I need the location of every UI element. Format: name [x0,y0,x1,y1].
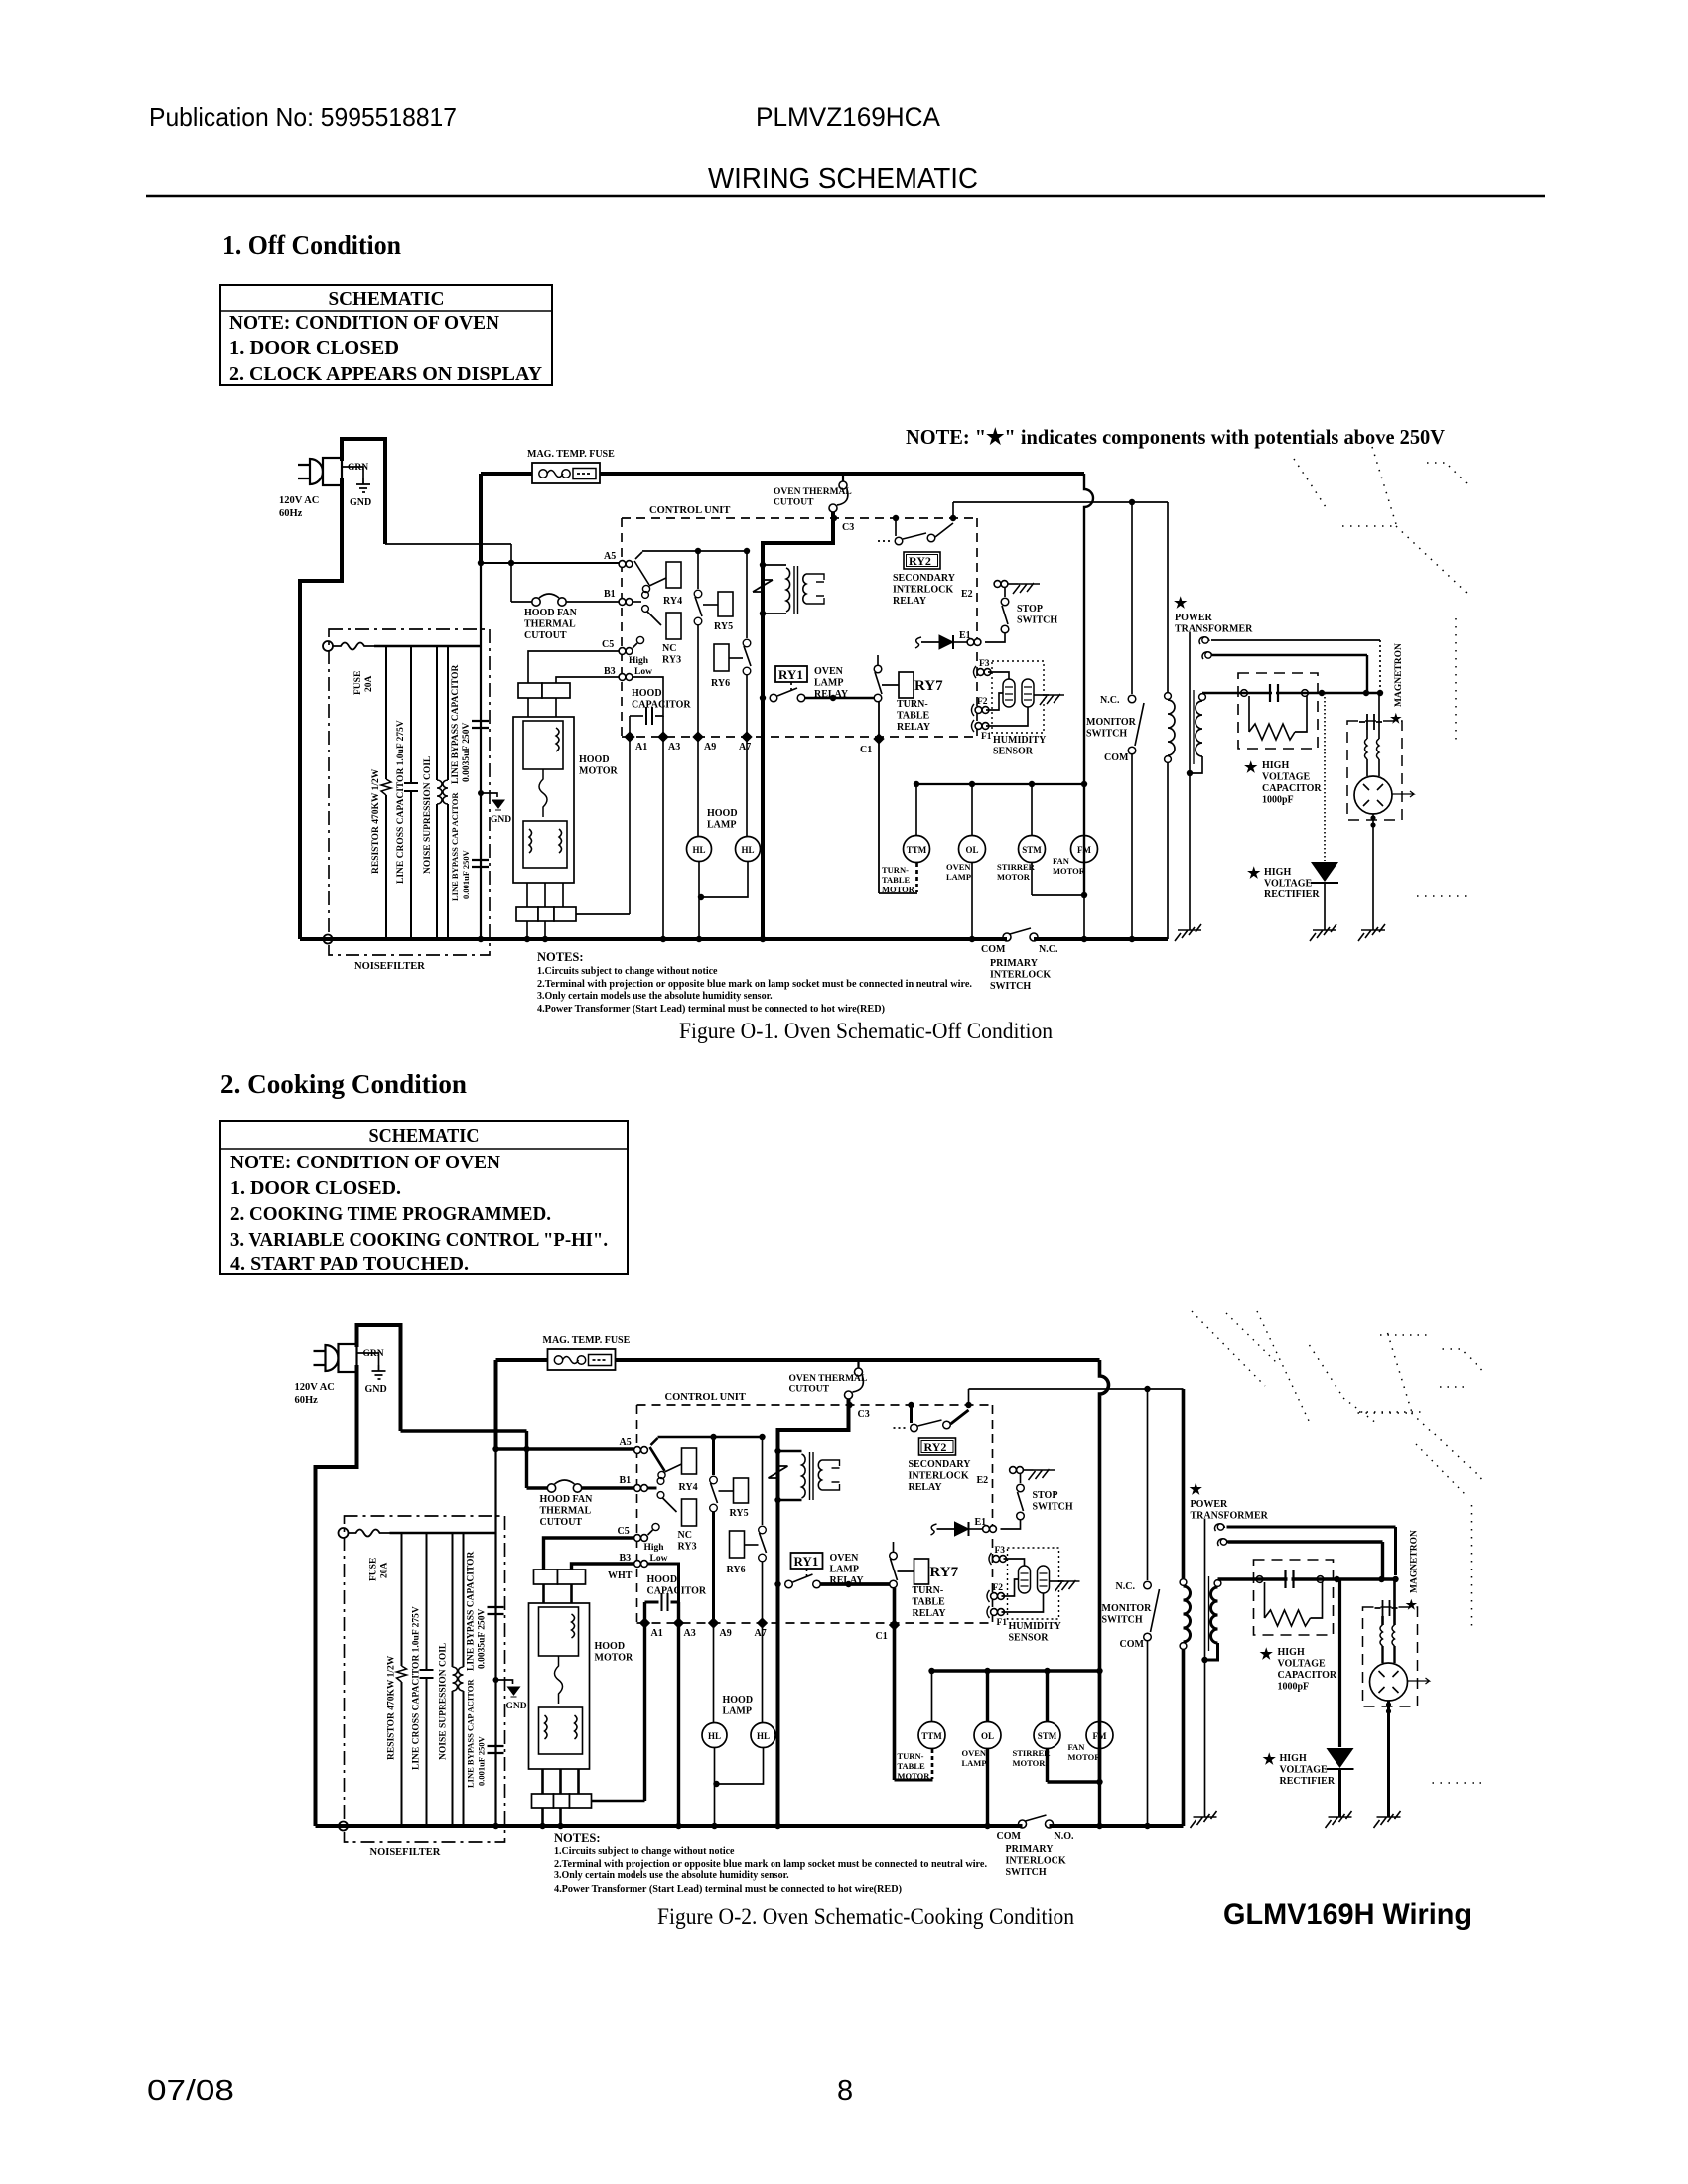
interlock COM contact [1003,933,1011,941]
junction rail OL [969,781,975,787]
svg-text:MAG. TEMP. FUSE: MAG. TEMP. FUSE [543,1335,631,1346]
svg-text:A1: A1 [635,742,647,752]
svg-text:★: ★ [1263,1752,1277,1768]
ground GND at plug [372,1365,386,1379]
svg-text:120V AC60Hz: 120V AC60Hz [295,1382,335,1406]
wire C5 run [544,1538,634,1570]
wire top line y555 [642,550,747,552]
thermistor 1 [1019,1566,1031,1593]
hood motor centrifugal switch [539,769,547,817]
terminal F2 [975,707,989,714]
primary bottom terminal [1165,756,1172,763]
contact RY2 right [927,534,935,542]
contact RY4 [642,585,649,592]
wire RY2 lever [918,1420,942,1426]
hv capacitor dashed box [1254,1560,1334,1635]
wire E2 to chassis [1008,583,1018,585]
svg-text:LINE CROSS CAPACITOR 1.0uF 275: LINE CROSS CAPACITOR 1.0uF 275V [412,1606,422,1770]
contact RY6 top [743,639,751,647]
wire A7 column upper [746,675,748,737]
turntable motor label box dashed edge [916,863,918,892]
wire top main bus [600,472,1084,476]
hood motor winding lower [539,1707,583,1754]
svg-text:A1: A1 [651,1628,663,1639]
wire STM-FM link y902 [1048,1780,1100,1783]
contact B1 upper [642,592,649,599]
noise suppression coil B [459,1667,464,1691]
wire primary feed x1176 [1182,1389,1186,1578]
svg-text:OVENLAMP: OVENLAMP [962,1748,987,1768]
wire stop switch to E1 row [985,633,1005,642]
wire HL1 drop [713,1623,715,1722]
svg-text:2. Cooking Condition: 2. Cooking Condition [220,1069,467,1099]
wire RY2 dotted stub [894,1427,908,1429]
interlock COM contact [1019,1820,1027,1828]
magnetron choke coils [1380,1625,1395,1646]
junction core/secondary [1187,770,1193,776]
wire y506 link [953,501,1168,503]
magnetron dashed box [1363,1607,1418,1706]
terminal E1 [983,1526,997,1533]
svg-text:MONITORSWITCH: MONITORSWITCH [1102,1603,1153,1626]
suppression coil rail A x440 [436,646,438,939]
junction x1092 bus [1096,1823,1102,1829]
junction RY2 right node [950,515,956,521]
control transformer primary coil [786,568,790,612]
wire ctrl xfmr primary bottom [778,1499,802,1502]
bottom neutral bus left [300,937,1007,941]
relay coil RY6 [714,644,729,671]
svg-text:HOODCAPACITOR: HOODCAPACITOR [632,688,691,711]
terminal A5 [634,1447,648,1454]
svg-text:MAGNETRON: MAGNETRON [1410,1530,1420,1593]
wire F1 into sensor [986,707,1028,726]
wire primary return [1167,762,1169,939]
terminal F1 [975,723,989,730]
svg-text:TURN-TABLEMOTOR: TURN-TABLEMOTOR [898,1751,931,1781]
stop switch lever [1002,606,1008,624]
svg-text:STOPSWITCH: STOPSWITCH [1033,1490,1073,1513]
wire RY6 link [729,657,743,659]
svg-text:TURN-TABLERELAY: TURN-TABLERELAY [897,699,931,733]
svg-text:2.Terminal with projection or: 2.Terminal with projection or opposite b… [537,979,973,990]
magnetron choke left [1366,730,1368,739]
oven thermal cutout top contact [839,481,847,489]
svg-text:★: ★ [1247,866,1261,882]
stop switch bottom contact [1001,625,1009,633]
wire STM bottom [1046,1749,1049,1782]
wire plug neutral [300,478,342,939]
monitor COM contact [1128,747,1136,754]
svg-text:High: High [644,1543,665,1553]
svg-text:1. DOOR CLOSED: 1. DOOR CLOSED [229,338,399,359]
terminal E1 [967,639,981,646]
svg-text:N.C.: N.C. [1039,944,1058,955]
svg-text:Figure O-2. Oven Schematic-Coo: Figure O-2. Oven Schematic-Cooking Condi… [657,1904,1074,1929]
filament terminal 1 [1217,1524,1223,1530]
svg-text:NOTES:: NOTES: [537,950,584,964]
chassis ground sensor [1040,694,1064,705]
junction y555/x703 [695,548,701,554]
svg-text:0.0035uF 250V: 0.0035uF 250V [462,723,472,782]
svg-text:HL: HL [741,845,754,855]
wire C5 lever [633,643,637,648]
noise filter top rail [374,645,481,647]
primary top terminal [1165,693,1172,700]
terminal C5 [619,648,633,655]
contact RY4 [658,1471,665,1478]
wire OL to bus [986,1749,989,1826]
junction OL bus [969,936,975,942]
svg-text:C3: C3 [842,522,854,533]
hood motor winding lower [523,821,567,868]
svg-text:E2: E2 [961,589,973,600]
svg-text:4.Power Transformer (Start Lea: 4.Power Transformer (Start Lead) termina… [554,1884,902,1895]
hood lamp HL1 [702,1723,727,1748]
wire sensor to chassis [1050,1580,1064,1582]
svg-text:E2: E2 [977,1475,989,1486]
hv rectifier diode [1311,862,1338,882]
svg-text:GND: GND [506,1702,527,1711]
monitor NC contact [1128,695,1136,703]
svg-text:FUSE: FUSE [369,1558,379,1581]
wire secondary cold end [1190,756,1202,773]
wire bypass gnd stub [496,1680,513,1684]
wire A1 column [629,716,631,914]
suppression coil rail A x440 [452,1533,454,1826]
primary top terminal [1180,1579,1187,1586]
wire cutout to B1 [566,601,619,603]
power transformer core second line [1208,1576,1210,1651]
terminal A3 [657,731,668,742]
wire A5 to y555 riser [635,552,642,559]
wire RY4 link [665,1464,682,1472]
svg-text:CONTROL UNIT: CONTROL UNIT [665,1392,746,1403]
hood motor body [513,717,574,883]
schematic note box 1 [220,285,552,385]
wire plug hot loop [357,1325,401,1431]
svg-text:COM: COM [997,1831,1022,1842]
wire motor to connector legs [527,883,563,907]
wire HL1 to bus [714,1748,716,1826]
junction OL bus [984,1823,990,1829]
terminal E noise filter [323,641,333,651]
wire RY2 dotted stub [878,540,892,542]
junction bus x484 [478,936,484,942]
stop switch top contact [1017,1484,1025,1492]
wire E2 to chassis [1024,1469,1034,1471]
hood motor body [529,1603,590,1769]
wire RY7 link [898,1570,914,1572]
junction x1140 bus [1144,1823,1150,1829]
ground hv rectifier [1326,1811,1352,1828]
svg-text:A5: A5 [604,551,616,562]
magnetron choke right drop [1378,693,1380,739]
junction hv bus c [1392,1576,1398,1582]
relay coil RY5 [734,1478,749,1503]
wire hood motor out right to A1 [576,913,630,915]
filament winding [1199,637,1212,659]
svg-text:GRN: GRN [348,463,368,473]
junction x1092 bus [1081,936,1087,942]
svg-text:OVENLAMPRELAY: OVENLAMPRELAY [830,1553,865,1586]
wire FM drop [1083,784,1085,836]
thermistor 2 [1038,1566,1050,1593]
oven thermal cutout bottom contact [829,504,837,512]
contact B1 lower [657,1492,664,1499]
terminal A9 [692,731,703,742]
wire OL to bus [971,863,973,939]
wire RY7 lever [875,672,882,694]
junction core/secondary [1201,1657,1207,1663]
wire ctrl xfmr primary top [778,1450,802,1453]
contact RY2 right [943,1421,951,1429]
wire mag fuse drop x484 [479,474,483,563]
svg-text:C5: C5 [602,639,614,650]
svg-text:OVENLAMP: OVENLAMP [946,862,971,882]
terminal N noise filter [324,935,333,944]
wire y506 from C3 node [952,502,954,518]
junction x1092 y902 [1081,892,1087,898]
svg-text:FANMOTOR: FANMOTOR [1068,1742,1102,1762]
svg-text:WIRING SCHEMATIC: WIRING SCHEMATIC [708,163,978,195]
svg-text:NOISE SUPRESSION COIL: NOISE SUPRESSION COIL [423,756,433,874]
motor TTM [918,1722,945,1749]
wire RY1 lever [793,1574,813,1582]
control unit dashed top [622,517,977,519]
svg-text:RY7: RY7 [930,1565,959,1580]
contact High [636,636,643,643]
wire hood motor out right to A1 [592,1800,645,1803]
bleed resistor left leg [1264,1582,1266,1618]
bottom neutral bus right [1034,937,1168,941]
svg-text:RY2: RY2 [909,554,931,568]
line cross cap rail x414 [410,646,412,939]
wire RY6 lever [744,646,751,666]
wire GRN stub [342,467,363,478]
monitor switch drop x1140 [1147,1389,1149,1580]
wire A5 feed y567 [496,1447,634,1451]
junction hv bus a [1319,690,1325,696]
svg-text:N.C.: N.C. [1116,1581,1136,1592]
terminal A1 [639,1617,650,1628]
junction hood mid bus [542,936,548,942]
junction HL2/HL1 [713,1781,719,1787]
svg-text:RY4: RY4 [679,1482,698,1493]
wire HL2 down [701,862,748,897]
magnetron tube leads [1383,1646,1395,1663]
turntable motor feed bottom [879,892,917,894]
svg-text:HIGHVOLTAGERECTIFIER: HIGHVOLTAGERECTIFIER [1280,1753,1336,1787]
junction bus x704 [696,936,702,942]
monitor switch to bus [1131,754,1133,939]
secondary top terminal [1199,694,1206,701]
motor OL [959,836,986,863]
motor STM [1019,836,1046,863]
hood fan cutout right contact [558,598,566,606]
svg-text:RY1: RY1 [778,667,803,682]
svg-text:A3: A3 [668,742,680,752]
contact RY7 top [890,1552,898,1560]
svg-text:TTM: TTM [921,1731,942,1741]
svg-text:NOTE: CONDITION OF OVEN: NOTE: CONDITION OF OVEN [229,312,500,334]
svg-text:C5: C5 [618,1526,630,1537]
svg-text:★: ★ [1260,1647,1274,1663]
svg-text:RY6: RY6 [727,1565,746,1575]
svg-text:FM: FM [1077,845,1091,855]
control unit dashed top [637,1404,993,1406]
svg-text:FANMOTOR: FANMOTOR [1053,856,1086,876]
wire C5 lever [648,1530,653,1535]
contact RY1 right [797,694,805,702]
terminal B1 [634,1485,648,1492]
fuse box MAG TEMP FUSE [548,1349,616,1370]
contact RY2 left [911,1424,918,1432]
humidity sensor dotted box [992,661,1044,733]
svg-text:HUMIDITYSENSOR: HUMIDITYSENSOR [993,735,1047,757]
contact RY5 top [710,1476,718,1484]
line bypass capacitor 2 plates [472,860,489,867]
wire RY2 left drop [910,1405,913,1423]
wire RY5 riser x703 [697,551,699,589]
ground magnetron [1374,1811,1401,1828]
wire C1 column [893,1588,897,1780]
magnetron choke coils [1365,739,1380,759]
svg-text:N.C.: N.C. [1100,695,1120,706]
svg-text:0.001uF 250V: 0.001uF 250V [461,849,471,899]
junction primary top [774,1448,780,1454]
svg-text:HOODCAPACITOR: HOODCAPACITOR [647,1574,707,1597]
svg-text:FUSE: FUSE [353,671,363,695]
junction RY2 left node [893,515,899,521]
wire RY7 link [882,684,899,686]
junction rail FM [1081,781,1087,787]
wire cutout to B1 [582,1486,634,1489]
wire STM drop [1046,1671,1049,1722]
magnetron filament terminals [1375,1600,1398,1616]
svg-text:A7: A7 [739,742,751,752]
wire TTM drop [915,784,917,836]
junction hood left bus [539,1823,545,1829]
wire x1092 to bus [1083,895,1085,939]
hv capacitor dashed box [1238,673,1318,749]
svg-text:20A: 20A [364,676,374,693]
ground power transformer [1175,924,1201,941]
hood motor winding upper [523,721,563,769]
hood lamp HL2 [751,1723,775,1748]
wire C5 run [528,651,619,684]
wire RY2 lever [903,533,926,539]
wire RY4 link [649,578,666,586]
svg-text:SCHEMATIC: SCHEMATIC [329,288,445,310]
wire top line y555 [658,1436,763,1439]
filament lead lower drop [1366,655,1368,693]
svg-text:NOTES:: NOTES: [554,1831,601,1844]
stop switch top contact [1001,598,1009,606]
wire RY5 link [703,604,718,606]
magnetron to ground [1387,1701,1390,1817]
junction RY1 node [760,695,766,701]
contact RY6 bottom [743,667,751,675]
svg-text:GND: GND [491,815,511,825]
filament lead lower drop [1381,1542,1384,1579]
svg-text:1.Circuits subject to change w: 1.Circuits subject to change without not… [537,966,718,977]
high voltage bus [1218,1577,1396,1581]
svg-text:RY1: RY1 [794,1554,819,1569]
wire x515 drop [510,544,512,602]
svg-text:RY4: RY4 [663,596,682,607]
svg-text:GND: GND [350,497,371,508]
noise suppression coil B [443,780,448,804]
svg-text:A9: A9 [720,1628,732,1639]
svg-text:B1: B1 [620,1475,632,1486]
interlock NC contact [1030,933,1038,941]
svg-text:HL: HL [757,1731,770,1741]
bracket F3 [974,666,977,678]
wire C1 column [878,702,880,893]
svg-text:LINE BYPASS CAPACITOR: LINE BYPASS CAPACITOR [467,1552,477,1671]
junction x515/y567 [508,560,514,566]
wire bypass rail x484 [480,563,482,939]
noise filter fuse [333,643,374,650]
line cross cap rail x414 [426,1533,428,1826]
wire STM drop [1031,784,1033,836]
terminal A1 [624,731,634,742]
relay coil RY3 NC [682,1499,697,1526]
terminal A7 [757,1617,768,1628]
wire FM drop [1098,1671,1101,1722]
junction x1140 bus [1129,936,1135,942]
wire F1 into sensor [1002,1593,1044,1612]
hv cap terminal right [1317,1576,1324,1583]
noise filter top rail [390,1532,496,1534]
wire primary feed x1176 [1167,502,1169,692]
svg-text:STM: STM [1022,845,1042,855]
motor FM [1086,1722,1113,1749]
wire STM-FM link y902 [1032,894,1084,896]
junction bus x668 [675,1823,681,1829]
bottom neutral bus left [316,1824,1023,1828]
suppression coil rail B x451 [463,1533,465,1826]
svg-text:4.Power Transformer (Start Lea: 4.Power Transformer (Start Lead) termina… [537,1004,885,1015]
fuse element symbol [554,1355,611,1366]
power transformer secondary coil [1211,1587,1218,1643]
junction C3 node [846,1402,852,1408]
filament lead upper [1211,639,1380,641]
bracket F1 [987,1606,990,1618]
motor FM [1071,836,1098,863]
terminal A5 [619,561,633,568]
svg-text:8: 8 [837,2075,853,2107]
contact RY6 top [759,1526,767,1534]
schematic note box 2 [220,1121,628,1275]
wire A5 lever [634,561,649,585]
wire RY2 left drop [895,518,897,536]
terminal A7 [741,731,752,742]
svg-text:HUMIDITYSENSOR: HUMIDITYSENSOR [1009,1621,1062,1644]
oven thermal cutout arc [837,489,848,505]
junction HL2/HL1 [698,894,704,900]
wire RY5 lever [695,597,702,616]
wire A5 lever [650,1447,665,1471]
control unit dashed right [992,1405,994,1623]
junction RY2 left node [908,1402,914,1408]
svg-text:LINE BYPASS CAP ACITOR: LINE BYPASS CAP ACITOR [466,1679,476,1788]
filament lead lower [1228,1540,1383,1543]
svg-text:NCRY3: NCRY3 [678,1530,697,1553]
monitor switch drop x1140 [1131,502,1133,694]
junction rail OL [984,1668,990,1674]
